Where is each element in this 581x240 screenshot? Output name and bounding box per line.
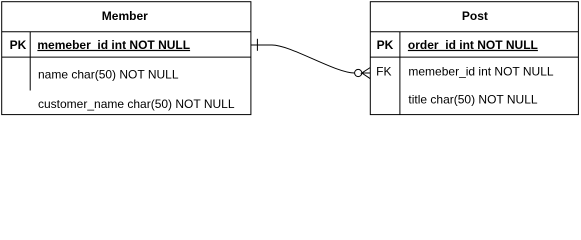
svg-text:memeber_id int NOT NULL: memeber_id int NOT NULL xyxy=(408,65,553,79)
entity Member PK row separator xyxy=(2,56,251,58)
svg-text:Member: Member xyxy=(102,9,148,23)
entity Post title separator xyxy=(370,31,578,33)
svg-text:PK: PK xyxy=(10,38,27,52)
entity Post PK row separator xyxy=(370,56,578,58)
svg-text:name char(50) NOT NULL: name char(50) NOT NULL xyxy=(38,67,179,81)
crow's foot many (Post end) xyxy=(362,68,371,79)
svg-text:order_id int NOT NULL: order_id int NOT NULL xyxy=(408,38,538,52)
entity Post frame xyxy=(370,2,578,115)
wire connector Member to Post xyxy=(251,45,355,73)
svg-text:Post: Post xyxy=(462,9,488,23)
svg-text:customer_name char(50) NOT NUL: customer_name char(50) NOT NULL xyxy=(38,97,235,111)
svg-text:FK: FK xyxy=(376,65,391,79)
svg-text:memeber_id int NOT NULL: memeber_id int NOT NULL xyxy=(37,38,190,52)
entity Member key column divider xyxy=(29,32,31,91)
entity Post key column divider xyxy=(399,32,401,115)
cardinality zero circle (Post end) xyxy=(355,69,362,76)
entity Member frame xyxy=(2,2,251,115)
svg-text:PK: PK xyxy=(377,38,394,52)
svg-text:title char(50) NOT NULL: title char(50) NOT NULL xyxy=(408,92,537,106)
entity Member title separator xyxy=(2,31,251,33)
cardinality one tick (Member end) xyxy=(256,39,258,51)
